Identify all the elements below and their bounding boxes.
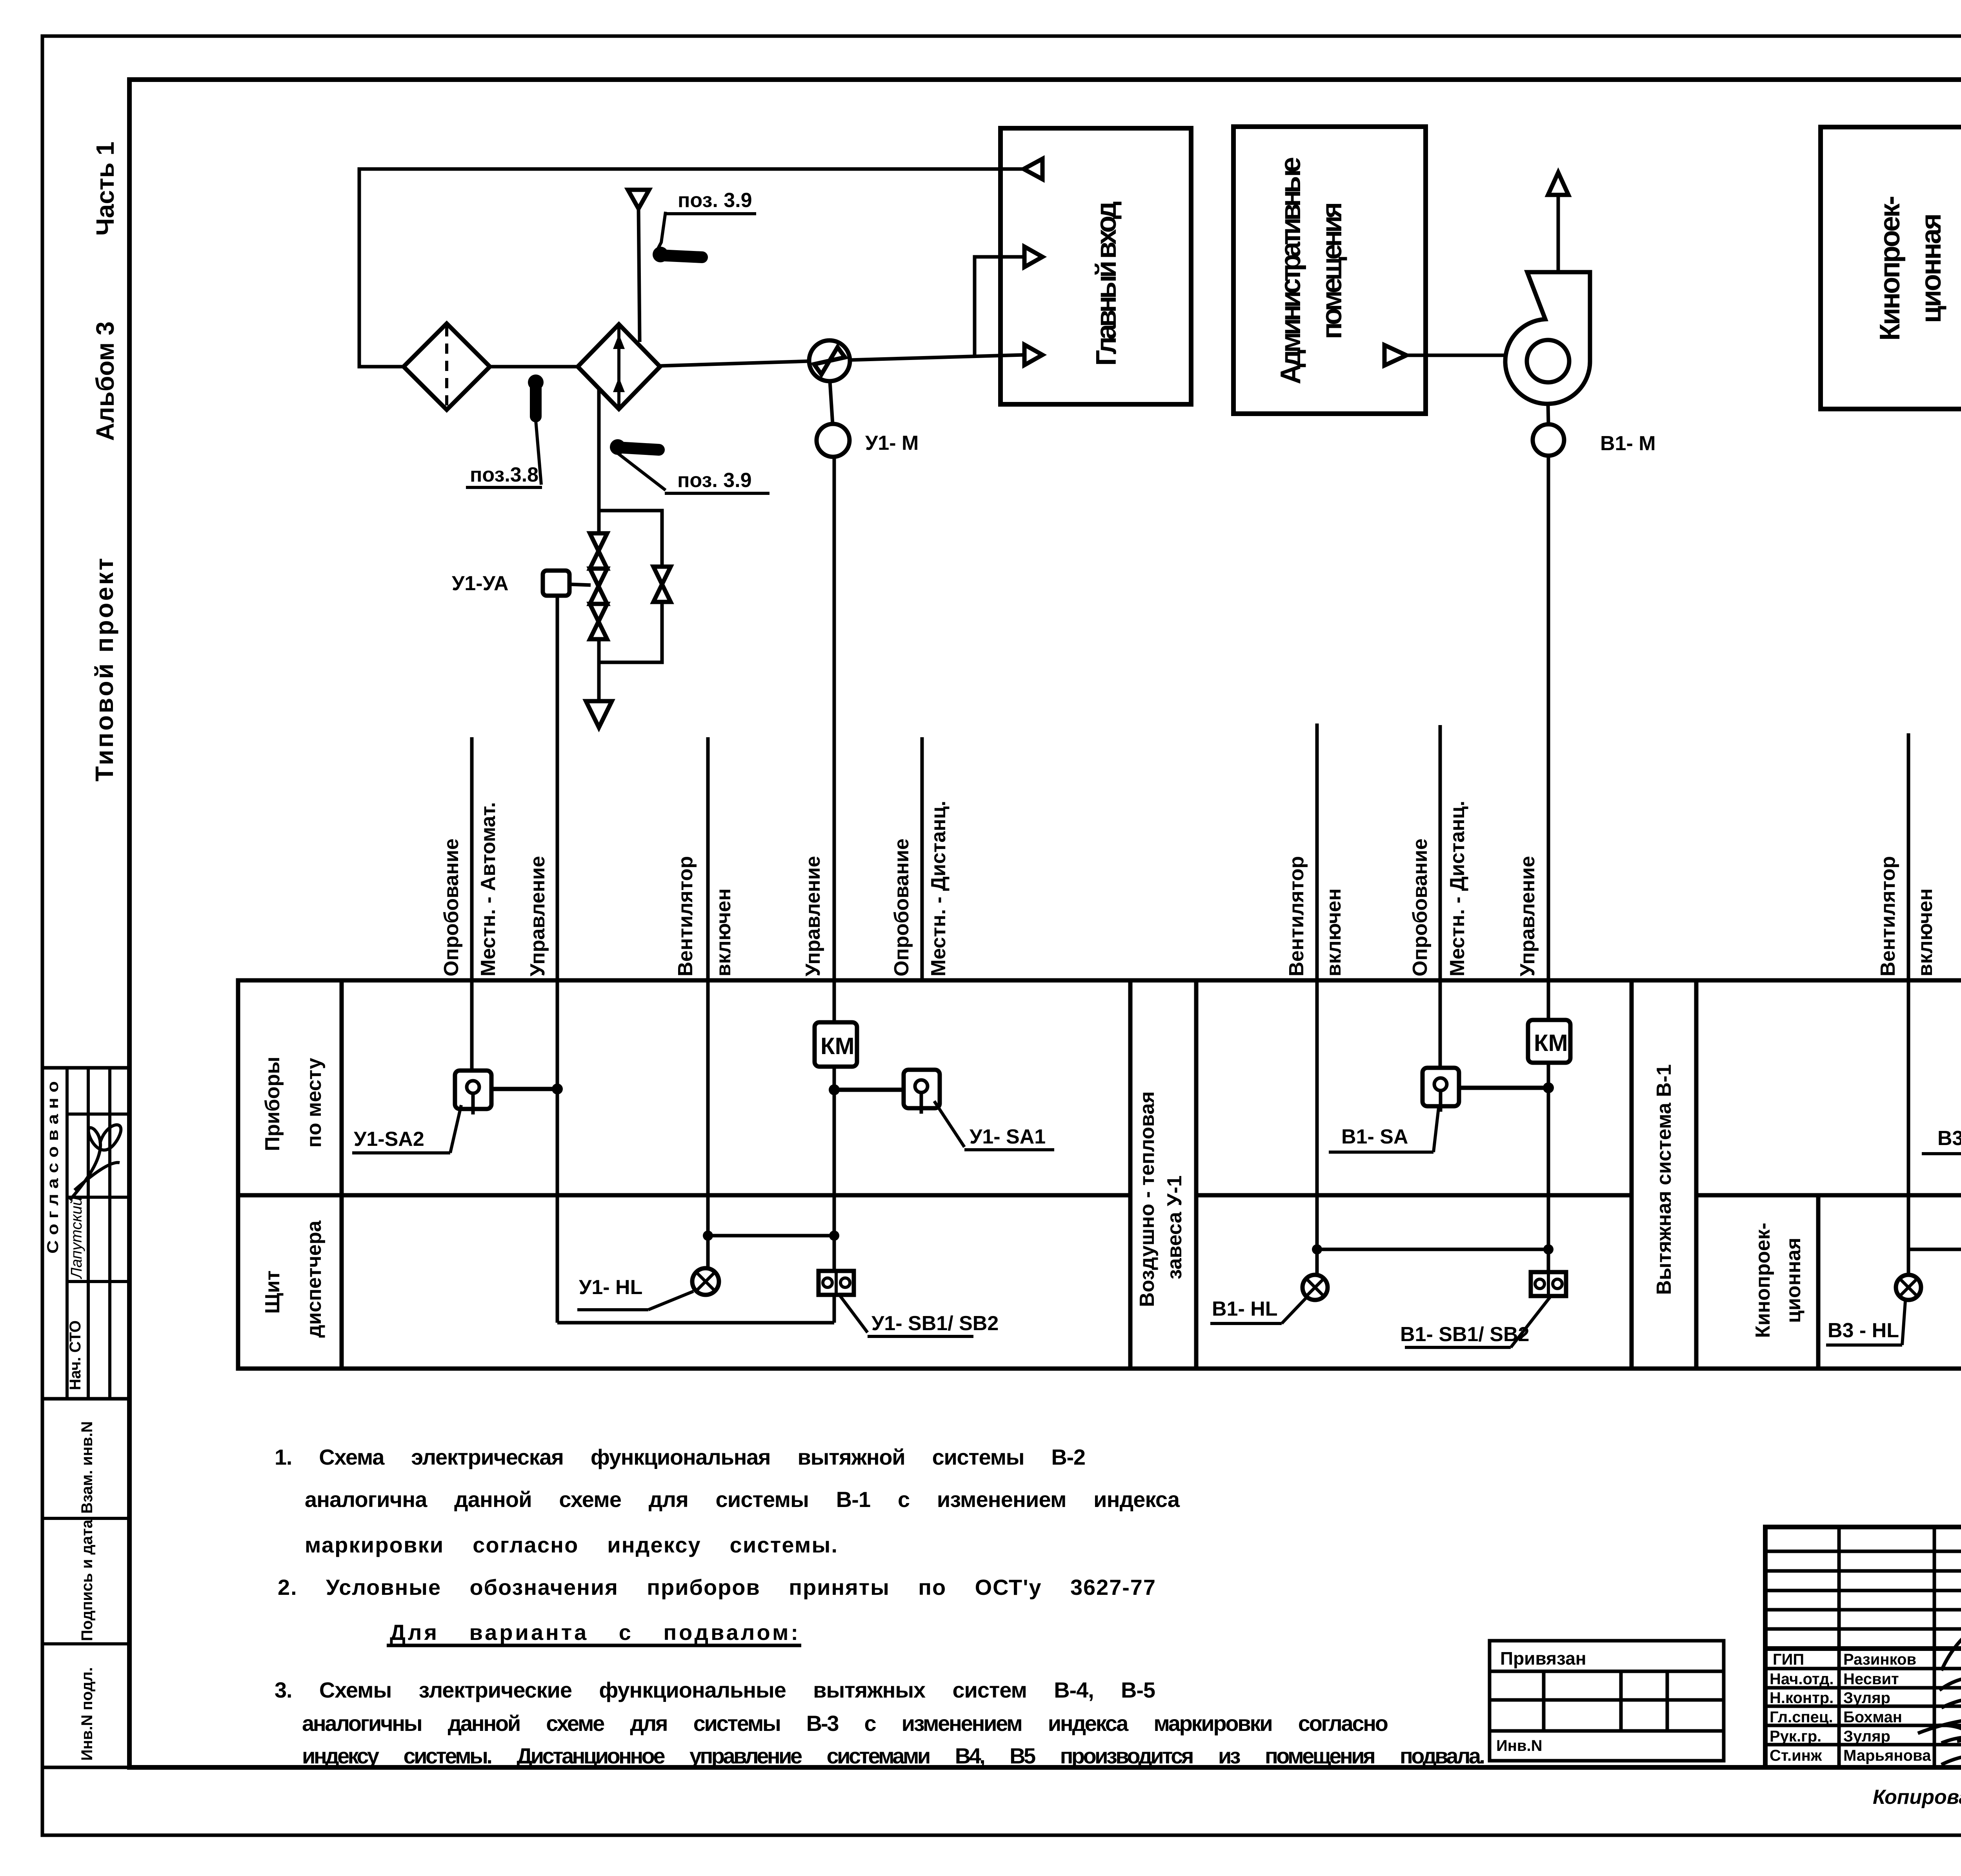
svg-text:ционная: ционная (1916, 213, 1947, 323)
drain pipe with arrow (586, 662, 612, 727)
svg-text:завеса У-1: завеса У-1 (1163, 1175, 1186, 1279)
svg-text:Типовой проект: Типовой проект (90, 558, 118, 782)
svg-text:3. Схемы злектрические функцио: 3. Схемы злектрические функциональные вы… (275, 1678, 1155, 1702)
wire L2-L4 bottom link (557, 1321, 834, 1325)
svg-text:Кинопроек-: Кинопроек- (1874, 196, 1906, 341)
bypass branch pipe (599, 511, 662, 567)
signal line L9 B3 ventilator vkluchen (1877, 733, 1937, 1275)
svg-text:помещения: помещения (1316, 202, 1348, 339)
label поз.3.8 (466, 464, 542, 487)
svg-text:Вытяжная система В-1: Вытяжная система В-1 (1653, 1064, 1675, 1295)
svg-text:Несвит: Несвит (1843, 1671, 1899, 1688)
junction L6-L8 link (1312, 1244, 1554, 1254)
svg-text:аналогичны данной схеме для си: аналогичны данной схеме для системы В-3 … (302, 1711, 1388, 1736)
section label Воздушно-тепловая завеса У-1 (1136, 1091, 1186, 1307)
actuator U1-UA (452, 571, 591, 596)
wire filter to heater (490, 365, 578, 369)
svg-text:Местн. - Дистанц.: Местн. - Дистанц. (927, 801, 950, 976)
sensor mark поз.3.9 top (653, 212, 702, 262)
signal line L4 U1 upravlenie KM (802, 457, 834, 1323)
svg-text:2. Условные обозначения прибор: 2. Условные обозначения приборов приняты… (278, 1575, 1155, 1600)
footer Копировал (1873, 1786, 1961, 1809)
wire SA2 to L2 (491, 1083, 563, 1094)
svg-text:Разинков: Разинков (1843, 1651, 1916, 1668)
valve V2 (590, 569, 607, 604)
signal line L6 B1 ventilator vkluchen (1285, 723, 1345, 1275)
svg-text:поз. 3.9: поз. 3.9 (678, 189, 752, 212)
svg-text:Воздушно - тепловая: Воздушно - тепловая (1136, 1091, 1159, 1307)
signal line L5 U1 oprobovanie dist (890, 737, 950, 980)
label U1-SA1 (934, 1101, 1054, 1150)
svg-text:Часть 1: Часть 1 (91, 142, 119, 236)
buttons B1-SB1/SB2 (1531, 1272, 1566, 1296)
svg-text:Инв.N: Инв.N (1496, 1737, 1543, 1754)
label поз.3.9 lower (665, 469, 769, 493)
svg-text:Инв.N подл.: Инв.N подл. (78, 1667, 96, 1761)
svg-text:Гл.спец.: Гл.спец. (1770, 1709, 1833, 1726)
margin text Типовой проект (90, 558, 118, 782)
margin text Взам. инв.N (78, 1421, 96, 1514)
cell label Кинопроекционная (1752, 1223, 1805, 1338)
motor U1-M (817, 381, 919, 457)
notes item 1 (275, 1445, 1180, 1557)
damper with drive U1 (809, 340, 850, 381)
svg-text:КМ: КМ (1534, 1030, 1568, 1056)
margin text Согласовано (44, 1081, 62, 1254)
svg-text:Опробование: Опробование (890, 838, 913, 976)
svg-text:Вентилятор: Вентилятор (1877, 856, 1899, 976)
wire recirculation top (359, 169, 1024, 367)
heater calorifer (578, 324, 660, 409)
svg-text:Местн. - Дистанц.: Местн. - Дистанц. (1446, 801, 1469, 976)
svg-text:1. Схема электрическая функцио: 1. Схема электрическая функциональная вы… (275, 1445, 1086, 1469)
svg-text:Опробование: Опробование (440, 838, 463, 976)
svg-text:В1- SА: В1- SА (1341, 1125, 1408, 1148)
table row label Щит диспетчера (261, 1220, 326, 1338)
svg-text:индексу системы. Дистанционное: индексу системы. Дистанционное управлени… (302, 1743, 1485, 1768)
svg-text:В1- М: В1- М (1600, 432, 1656, 455)
svg-text:В1- HL: В1- HL (1212, 1298, 1278, 1320)
wire branch to middle arrow (975, 257, 1023, 355)
notes item 2 (278, 1575, 1155, 1600)
valve V1 (590, 533, 607, 569)
fan B1 (1505, 272, 1590, 404)
svg-text:Приборы: Приборы (261, 1056, 284, 1151)
label U1-HL (577, 1276, 693, 1310)
signatures scribbles (1918, 1628, 1961, 1765)
left margin stamp block (42, 1068, 129, 1767)
svg-text:Управление: Управление (1516, 856, 1539, 976)
suction arrow B1 (1384, 345, 1506, 365)
deflector intake (628, 190, 649, 342)
notes item 3 (275, 1678, 1485, 1768)
svg-text:Для варианта с подвалом:: Для варианта с подвалом: (390, 1620, 798, 1645)
svg-text:поз. 3.9: поз. 3.9 (677, 469, 752, 492)
margin text Нач. СТО (67, 1320, 84, 1390)
switch U1-SA1 (904, 1070, 940, 1114)
table frame (238, 980, 1961, 1369)
svg-text:У1- SA1: У1- SA1 (970, 1125, 1046, 1148)
svg-text:У1- М: У1- М (865, 432, 919, 454)
arrow supply bottom (1024, 345, 1042, 365)
lamp B3-HL (1896, 1275, 1921, 1300)
contactor KM U1 (815, 1022, 857, 1067)
margin text Инв.N подл. (78, 1667, 96, 1761)
label U1-SB1/SB2 (839, 1295, 999, 1336)
pipe below valves (599, 602, 662, 662)
svg-text:В1- SВ1/ SВ2: В1- SВ1/ SВ2 (1400, 1323, 1529, 1346)
svg-text:Опробование: Опробование (1409, 838, 1432, 976)
svg-text:Подпись и дата: Подпись и дата (78, 1519, 96, 1641)
svg-text:У1-SA2: У1-SA2 (354, 1128, 424, 1151)
signal line L3 U1 ventilator vkluchen (674, 737, 735, 1268)
arrow supply middle (1024, 247, 1042, 267)
signal line L8 B1 upravlenie (1516, 455, 1548, 1272)
label B1-HL (1210, 1298, 1306, 1323)
svg-text:Н.контр.: Н.контр. (1770, 1689, 1834, 1707)
junction L9-L11 link (1908, 1244, 1961, 1254)
contactor KM B1 (1528, 1020, 1570, 1063)
label B3-HL (1826, 1301, 1905, 1345)
svg-text:Лапутский: Лапутский (68, 1197, 85, 1280)
svg-text:У1-УА: У1-УА (452, 572, 509, 595)
wire L4 to SA1 (829, 1084, 904, 1095)
label U1-SA2 (352, 1105, 461, 1153)
box Кинопроекционная (1821, 127, 1961, 409)
svg-text:Управление: Управление (802, 856, 824, 976)
label поз.3.9 top (665, 189, 756, 214)
svg-text:поз.3.8: поз.3.8 (470, 464, 538, 486)
switch U1-SA2 (455, 1071, 491, 1114)
svg-text:У1- HL: У1- HL (579, 1276, 642, 1299)
svg-text:маркировки согласно индексу си: маркировки согласно индексу системы. (305, 1532, 837, 1557)
svg-text:ционная: ционная (1782, 1238, 1805, 1323)
svg-text:Управление: Управление (526, 856, 549, 976)
signal line L7 B1 oprobovanie (1409, 725, 1469, 1068)
label B3-SA (1922, 1110, 1961, 1154)
svg-text:Вентилятор: Вентилятор (1285, 856, 1308, 976)
svg-text:Административные: Административные (1275, 157, 1306, 384)
svg-text:ГИП: ГИП (1773, 1651, 1804, 1668)
motor B1-M (1533, 404, 1656, 456)
sensor mark поз.3.9 lower (610, 439, 666, 490)
table row label Приборы по месту (261, 1056, 326, 1151)
svg-text:Кинопроек-: Кинопроек- (1752, 1223, 1774, 1338)
notes subtitle для варианта с подвалом (387, 1620, 801, 1645)
lamp B1-HL (1302, 1275, 1328, 1300)
switch B1-SA (1423, 1068, 1459, 1112)
filter F (404, 324, 490, 410)
label B1-SA (1329, 1108, 1439, 1152)
svg-text:аналогична данной схеме для си: аналогична данной схеме для системы В-1 … (305, 1487, 1180, 1512)
svg-text:Зуляр: Зуляр (1843, 1728, 1890, 1745)
wire damper to box (850, 355, 1024, 360)
bypass valve (653, 567, 671, 602)
junction L3-L4 link (703, 1231, 839, 1241)
box Главный вход (1001, 128, 1191, 404)
label B1-SB1/SB2 (1400, 1297, 1550, 1347)
sensor mark поз.3.8 (528, 374, 544, 485)
exhaust arrow B1 (1548, 173, 1568, 272)
margin signature Лапутский (68, 1125, 121, 1280)
arrow into recirculation (1024, 159, 1042, 179)
section label Вытяжная система В-1 (1653, 1064, 1675, 1295)
svg-text:Вентилятор: Вентилятор (674, 856, 697, 976)
svg-text:включен: включен (1914, 888, 1937, 976)
svg-text:включен: включен (712, 888, 735, 976)
buttons U1-SB1/SB2 (819, 1271, 854, 1295)
signal line L1 U1 oprobovanie (440, 737, 500, 1071)
privyazan box (1490, 1641, 1724, 1761)
svg-text:Альбом 3: Альбом 3 (91, 322, 119, 441)
box Административные помещения (1233, 127, 1426, 414)
margin text Подпись и дата (78, 1519, 96, 1641)
svg-text:Марьянова: Марьянова (1843, 1747, 1931, 1764)
svg-text:Нач. СТО: Нач. СТО (67, 1320, 84, 1390)
svg-text:Зуляр: Зуляр (1843, 1689, 1890, 1707)
svg-text:Копировал: Жукова: Копировал: Жукова (1873, 1786, 1961, 1809)
svg-text:Главный вход: Главный вход (1091, 201, 1122, 366)
svg-text:Взам. инв.N: Взам. инв.N (78, 1421, 96, 1514)
svg-text:У1- SВ1/ SВ2: У1- SВ1/ SВ2 (871, 1312, 999, 1335)
svg-text:В3 - HL: В3 - HL (1828, 1319, 1899, 1342)
svg-text:Бохман: Бохман (1843, 1709, 1902, 1726)
svg-text:Привязан: Привязан (1500, 1648, 1586, 1669)
svg-text:Рук.гр.: Рук.гр. (1770, 1728, 1821, 1745)
heater water pipe down (597, 387, 601, 533)
wire heater to damper (660, 361, 809, 366)
wire B1-SA to L8 (1459, 1082, 1554, 1093)
svg-text:включен: включен (1322, 888, 1345, 976)
svg-text:диспетчера: диспетчера (303, 1220, 326, 1338)
svg-text:Местн. - Автомат.: Местн. - Автомат. (477, 802, 500, 976)
svg-text:Нач.отд.: Нач.отд. (1770, 1671, 1834, 1688)
margin text Альбом 3 (91, 322, 119, 441)
valve V3 (590, 604, 607, 639)
svg-text:С о г л а с о в а н о: С о г л а с о в а н о (44, 1081, 62, 1254)
svg-text:В3 -SА: В3 -SА (1937, 1127, 1961, 1150)
lamp U1-HL (692, 1268, 719, 1295)
name rows (1770, 1651, 1931, 1764)
svg-text:Щит: Щит (261, 1271, 284, 1314)
margin text Часть 1 (91, 142, 119, 236)
svg-text:Ст.инж: Ст.инж (1770, 1747, 1822, 1764)
svg-text:КМ: КМ (820, 1033, 855, 1059)
title block frame (1765, 1527, 1961, 1767)
signal line L2 U1 upravlenie (526, 596, 557, 1323)
svg-text:по месту: по месту (303, 1058, 326, 1147)
